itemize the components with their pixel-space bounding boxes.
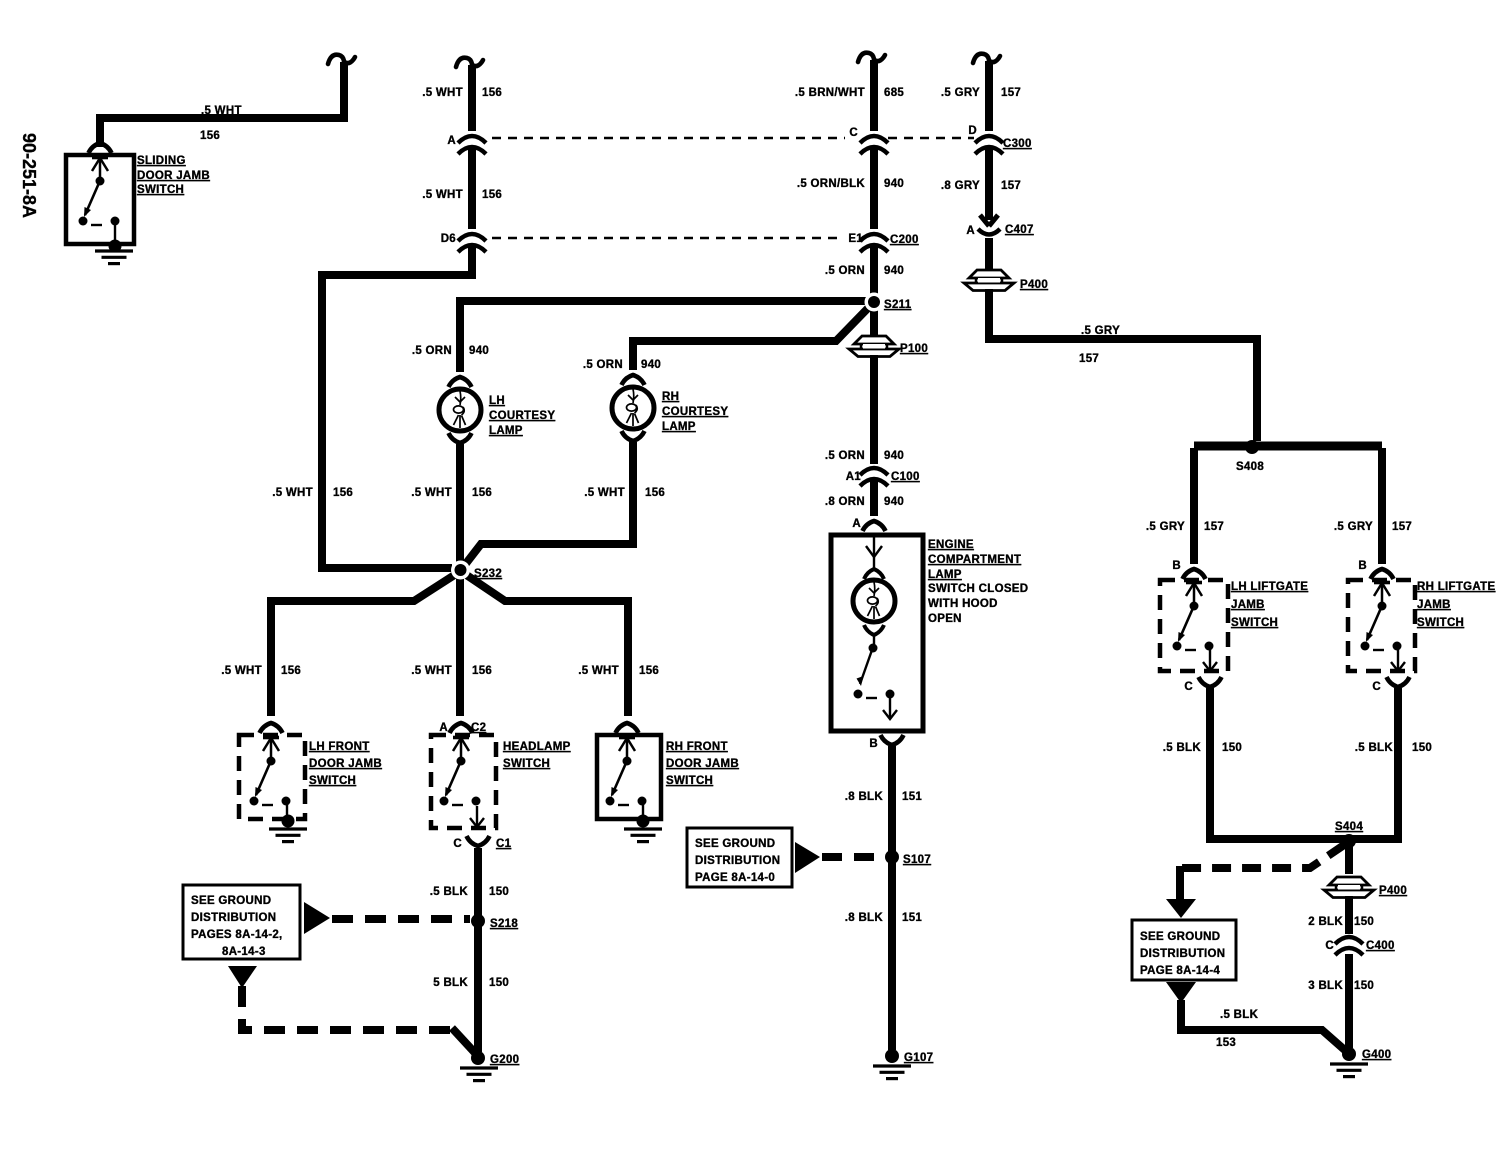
- svg-text:150: 150: [1354, 916, 1374, 928]
- svg-text:.5 ORN: .5 ORN: [412, 345, 452, 357]
- svg-text:SEE GROUND: SEE GROUND: [1140, 931, 1220, 943]
- dashed wire S404 to arrow: [1174, 845, 1344, 868]
- wire RH liftgate to S404: [1349, 688, 1398, 839]
- svg-text:940: 940: [641, 359, 661, 371]
- LH front door jamb switch internals: [250, 737, 291, 806]
- wire S408 to RH liftgate: [1378, 448, 1386, 564]
- svg-text:.8 ORN: .8 ORN: [825, 496, 865, 508]
- svg-text:156: 156: [333, 487, 353, 499]
- svg-text:SLIDING: SLIDING: [137, 155, 186, 167]
- svg-text:LH LIFTGATE: LH LIFTGATE: [1231, 581, 1308, 593]
- svg-text:PAGES 8A-14-2,: PAGES 8A-14-2,: [191, 929, 283, 941]
- wire S408 to LH liftgate: [1190, 448, 1198, 564]
- svg-text:.5 BRN/WHT: .5 BRN/WHT: [795, 87, 865, 99]
- svg-text:C1: C1: [496, 838, 512, 850]
- RH courtesy lamp terminal: [622, 375, 645, 385]
- wire LH liftgate to S404: [1210, 688, 1349, 839]
- arrow into box 8A-14-4: [1166, 899, 1196, 918]
- svg-text:157: 157: [1001, 180, 1021, 192]
- svg-text:SWITCH: SWITCH: [666, 775, 713, 787]
- dashed wire to S107: [822, 853, 884, 861]
- svg-text:SWITCH CLOSED: SWITCH CLOSED: [928, 583, 1028, 595]
- svg-text:C: C: [849, 127, 858, 139]
- svg-text:.5 WHT: .5 WHT: [411, 665, 452, 677]
- headlamp switch box (dashed): [431, 735, 496, 828]
- svg-text:LAMP: LAMP: [489, 425, 523, 437]
- svg-text:SWITCH: SWITCH: [309, 775, 356, 787]
- wire S211 to RH courtesy lamp: [633, 304, 872, 370]
- sliding door jamb switch box: [66, 155, 134, 244]
- svg-text:S211: S211: [884, 299, 912, 311]
- svg-text:ENGINE: ENGINE: [928, 539, 974, 551]
- svg-text:.5 WHT: .5 WHT: [578, 665, 619, 677]
- RH front door jamb switch terminal: [616, 723, 639, 733]
- svg-text:.5 WHT: .5 WHT: [201, 105, 242, 117]
- svg-text:90-251-8A: 90-251-8A: [19, 133, 39, 218]
- svg-text:JAMB: JAMB: [1231, 599, 1265, 611]
- svg-text:.8 BLK: .8 BLK: [845, 791, 884, 803]
- svg-text:C2: C2: [471, 722, 486, 734]
- svg-text:A: A: [439, 722, 448, 734]
- svg-text:C100: C100: [891, 471, 920, 483]
- LH liftgate jamb switch box (dashed): [1160, 580, 1228, 671]
- svg-text:156: 156: [482, 87, 502, 99]
- wire .5 WHT 156 from sliding door jamb switch: [100, 62, 344, 147]
- arrow to S218: [304, 902, 330, 934]
- LH front door switch ground: [282, 815, 295, 828]
- svg-text:B: B: [1172, 560, 1181, 572]
- svg-text:S218: S218: [490, 918, 518, 930]
- grommet P400 lower: [1324, 877, 1374, 898]
- splice S107: [885, 850, 899, 864]
- grommet P100: [849, 336, 899, 357]
- svg-text:2 BLK: 2 BLK: [1308, 916, 1343, 928]
- svg-text:.5 GRY: .5 GRY: [1334, 521, 1373, 533]
- svg-text:5 BLK: 5 BLK: [433, 977, 468, 989]
- svg-text:940: 940: [469, 345, 489, 357]
- svg-text:.8 BLK: .8 BLK: [845, 912, 884, 924]
- svg-text:157: 157: [1001, 87, 1021, 99]
- arrow below box 8A-14-4: [1166, 982, 1196, 1003]
- svg-text:RH: RH: [662, 391, 679, 403]
- svg-text:C: C: [1325, 940, 1334, 952]
- svg-text:C400: C400: [1366, 940, 1395, 952]
- svg-text:.5 WHT: .5 WHT: [221, 665, 262, 677]
- svg-text:156: 156: [482, 189, 502, 201]
- svg-text:157: 157: [1204, 521, 1224, 533]
- LH front door jamb switch box (dashed): [239, 735, 305, 819]
- svg-text:.5 BLK: .5 BLK: [430, 886, 469, 898]
- svg-text:B: B: [869, 738, 878, 750]
- svg-text:C: C: [1372, 681, 1381, 693]
- svg-text:DISTRIBUTION: DISTRIBUTION: [191, 912, 276, 924]
- svg-text:A: A: [852, 518, 861, 530]
- LH liftgate switch internals: [1173, 582, 1214, 651]
- wire LH lamp to S232: [456, 444, 464, 568]
- svg-text:P400: P400: [1020, 279, 1048, 291]
- svg-text:S107: S107: [903, 854, 931, 866]
- svg-text:COURTESY: COURTESY: [489, 410, 555, 422]
- RH front door jamb switch internals: [606, 737, 647, 806]
- svg-text:C: C: [1184, 681, 1193, 693]
- svg-text:.5 BLK: .5 BLK: [1163, 742, 1202, 754]
- S408 bar: [1194, 442, 1382, 451]
- RH front door jamb switch box: [597, 735, 661, 819]
- svg-text:.5 ORN: .5 ORN: [825, 265, 865, 277]
- svg-text:.5 ORN: .5 ORN: [825, 450, 865, 462]
- svg-text:.5 ORN: .5 ORN: [583, 359, 623, 371]
- svg-text:LAMP: LAMP: [928, 569, 962, 581]
- svg-text:940: 940: [884, 450, 904, 462]
- svg-text:A: A: [966, 225, 975, 237]
- svg-text:.5 BLK: .5 BLK: [1220, 1009, 1259, 1021]
- dashed connector line A to C: [492, 137, 845, 140]
- svg-text:P400: P400: [1379, 885, 1407, 897]
- svg-text:.5 GRY: .5 GRY: [1081, 325, 1120, 337]
- svg-text:PAGE 8A-14-0: PAGE 8A-14-0: [695, 872, 775, 884]
- wire B to G107: [888, 746, 896, 1050]
- splice S218: [471, 914, 485, 928]
- wire column A x=472: [456, 58, 483, 67]
- svg-text:C407: C407: [1005, 224, 1034, 236]
- svg-text:COMPARTMENT: COMPARTMENT: [928, 554, 1021, 566]
- svg-text:940: 940: [884, 265, 904, 277]
- svg-text:SEE GROUND: SEE GROUND: [695, 838, 775, 850]
- arrow to S107: [795, 842, 820, 873]
- svg-text:LAMP: LAMP: [662, 421, 696, 433]
- svg-text:COURTESY: COURTESY: [662, 406, 728, 418]
- wire end hook: [328, 55, 355, 64]
- svg-text:C: C: [453, 838, 462, 850]
- svg-text:D6: D6: [441, 233, 456, 245]
- wire S211 to LH courtesy lamp: [460, 301, 866, 372]
- see ground distribution box (pages 8A-14-2, 8A-14-3): [183, 885, 300, 959]
- svg-text:3 BLK: 3 BLK: [1308, 980, 1343, 992]
- RH liftgate jamb switch box (dashed): [1348, 580, 1415, 671]
- svg-text:G400: G400: [1362, 1049, 1391, 1061]
- LH front door jamb switch terminal: [260, 723, 283, 733]
- grommet P400: [964, 270, 1014, 291]
- svg-text:SWITCH: SWITCH: [137, 184, 184, 196]
- dashed connector line D6 to E1: [492, 237, 843, 240]
- svg-text:940: 940: [884, 496, 904, 508]
- svg-text:685: 685: [884, 87, 904, 99]
- svg-text:156: 156: [639, 665, 659, 677]
- LH courtesy lamp terminal: [449, 377, 472, 387]
- svg-text:157: 157: [1079, 353, 1099, 365]
- svg-text:.8 GRY: .8 GRY: [941, 180, 980, 192]
- wire P400 to S408: [989, 289, 1257, 441]
- svg-text:.5 GRY: .5 GRY: [1146, 521, 1185, 533]
- svg-text:DISTRIBUTION: DISTRIBUTION: [695, 855, 780, 867]
- svg-text:150: 150: [1412, 742, 1432, 754]
- svg-text:.5 WHT: .5 WHT: [584, 487, 625, 499]
- svg-text:C200: C200: [890, 234, 919, 246]
- wire P100 to C100: [870, 355, 878, 464]
- svg-text:JAMB: JAMB: [1417, 599, 1451, 611]
- svg-text:.5 GRY: .5 GRY: [941, 87, 980, 99]
- svg-text:156: 156: [472, 487, 492, 499]
- svg-text:SEE GROUND: SEE GROUND: [191, 895, 271, 907]
- svg-text:150: 150: [1222, 742, 1242, 754]
- wire .5 BLK 153 to G400: [1181, 1000, 1347, 1052]
- svg-text:151: 151: [902, 912, 922, 924]
- svg-text:SWITCH: SWITCH: [1231, 617, 1278, 629]
- wire headlamp switch to G200: [474, 848, 482, 1052]
- LH courtesy lamp: [439, 389, 481, 431]
- ground G107: [885, 1049, 899, 1063]
- sliding door jamb switch internals: [79, 157, 120, 226]
- RH front door switch ground: [637, 815, 650, 828]
- wire jog left to x=322 down to S232: [322, 246, 472, 568]
- svg-text:WITH HOOD: WITH HOOD: [928, 598, 998, 610]
- svg-text:DOOR JAMB: DOOR JAMB: [137, 170, 210, 182]
- RH liftgate switch internals: [1361, 582, 1402, 651]
- svg-text:RH FRONT: RH FRONT: [666, 741, 728, 753]
- right column .5 GRY: [973, 54, 1000, 63]
- splice S232: [451, 561, 470, 580]
- dashed wire to S218: [332, 915, 470, 923]
- svg-text:LH: LH: [489, 395, 505, 407]
- svg-text:157: 157: [1392, 521, 1412, 533]
- svg-text:.5 ORN/BLK: .5 ORN/BLK: [797, 178, 866, 190]
- sliding door jamb switch terminal: [89, 143, 112, 153]
- svg-text:S408: S408: [1236, 461, 1264, 473]
- svg-text:HEADLAMP: HEADLAMP: [503, 741, 571, 753]
- sliding door switch ground: [109, 240, 122, 253]
- svg-text:OPEN: OPEN: [928, 613, 962, 625]
- RH courtesy lamp: [612, 387, 654, 429]
- svg-text:.5 WHT: .5 WHT: [411, 487, 452, 499]
- svg-text:940: 940: [884, 178, 904, 190]
- wire S232 to LH front door jamb switch: [271, 574, 456, 716]
- wire into G200: [452, 1028, 476, 1054]
- svg-text:156: 156: [645, 487, 665, 499]
- ground G200: [471, 1051, 485, 1065]
- see ground distribution box (page 8A-14-4): [1132, 920, 1236, 980]
- engine compartment lamp box: [831, 535, 923, 731]
- svg-text:150: 150: [489, 886, 509, 898]
- center column .5 BRN/WHT: [858, 53, 885, 62]
- svg-text:P100: P100: [900, 343, 928, 355]
- svg-text:G200: G200: [490, 1054, 519, 1066]
- wire S232 down to headlamp switch: [456, 572, 464, 716]
- svg-text:G107: G107: [904, 1052, 933, 1064]
- engine lamp internals: [873, 537, 875, 568]
- svg-text:153: 153: [1216, 1037, 1236, 1049]
- svg-text:C300: C300: [1003, 138, 1032, 150]
- splice S211: [865, 293, 884, 312]
- svg-text:156: 156: [200, 130, 220, 142]
- ground G400: [1342, 1047, 1356, 1061]
- wire RH lamp to S232: [464, 442, 633, 566]
- svg-text:LH FRONT: LH FRONT: [309, 741, 370, 753]
- svg-text:8A-14-3: 8A-14-3: [222, 946, 266, 958]
- see ground distribution box (page 8A-14-0): [687, 828, 792, 887]
- wire S232 to RH front door jamb switch: [465, 574, 628, 716]
- svg-text:SWITCH: SWITCH: [503, 758, 550, 770]
- svg-text:.5 WHT: .5 WHT: [422, 189, 463, 201]
- dashed wire from box to G200: [242, 986, 455, 1030]
- wire S404 down: [1345, 843, 1353, 874]
- arrow below box: [228, 966, 257, 988]
- dashed connector line C to D: [888, 137, 974, 140]
- svg-text:RH LIFTGATE: RH LIFTGATE: [1417, 581, 1495, 593]
- svg-text:156: 156: [281, 665, 301, 677]
- svg-text:B: B: [1358, 560, 1367, 572]
- svg-text:.5 BLK: .5 BLK: [1355, 742, 1394, 754]
- svg-text:S404: S404: [1335, 821, 1363, 833]
- headlamp switch internals: [440, 737, 481, 806]
- svg-text:DISTRIBUTION: DISTRIBUTION: [1140, 948, 1225, 960]
- svg-text:SWITCH: SWITCH: [1417, 617, 1464, 629]
- svg-text:D: D: [968, 125, 977, 137]
- svg-text:150: 150: [1354, 980, 1374, 992]
- svg-text:151: 151: [902, 791, 922, 803]
- svg-text:.5 WHT: .5 WHT: [272, 487, 313, 499]
- svg-text:A1: A1: [846, 471, 862, 483]
- svg-text:DOOR JAMB: DOOR JAMB: [666, 758, 739, 770]
- svg-text:DOOR JAMB: DOOR JAMB: [309, 758, 382, 770]
- svg-text:PAGE 8A-14-4: PAGE 8A-14-4: [1140, 965, 1220, 977]
- svg-text:156: 156: [472, 665, 492, 677]
- svg-text:150: 150: [489, 977, 509, 989]
- svg-text:A: A: [447, 135, 456, 147]
- svg-text:.5 WHT: .5 WHT: [422, 87, 463, 99]
- splice S408: [1245, 440, 1259, 454]
